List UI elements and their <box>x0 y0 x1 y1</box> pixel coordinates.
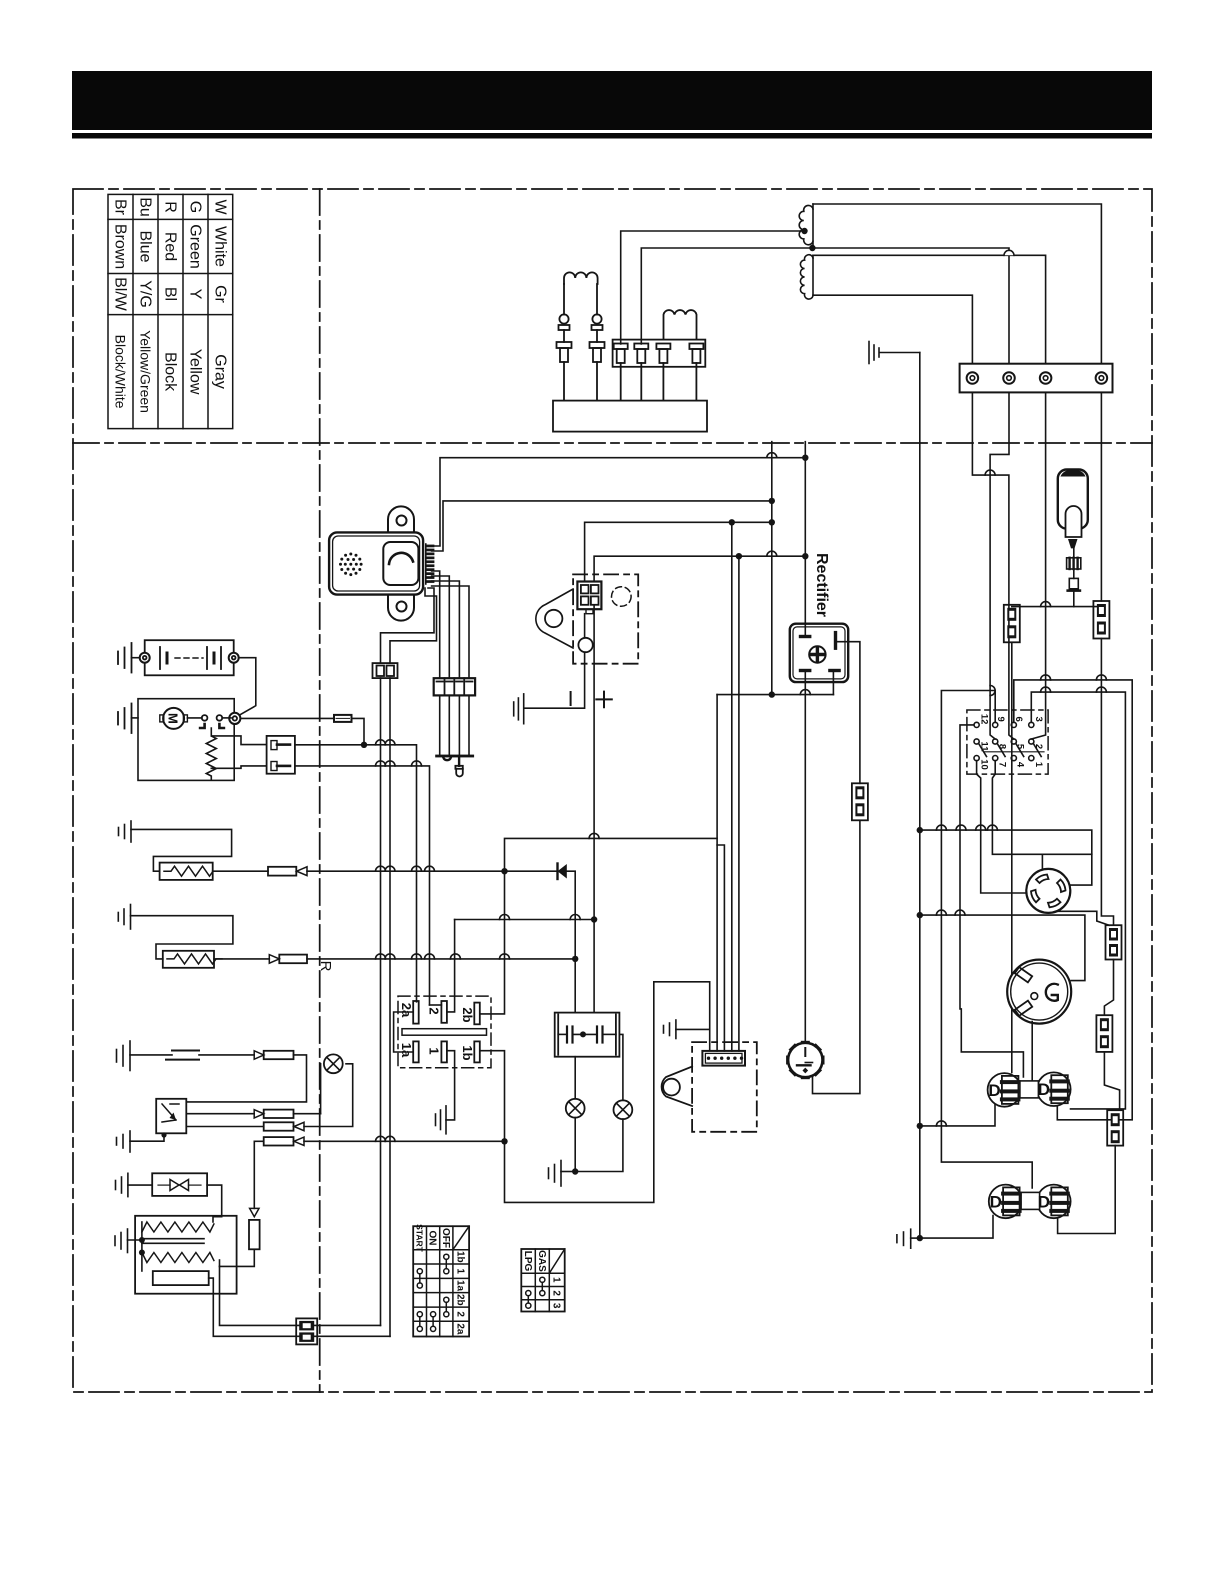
START 1-1a <box>417 1269 422 1274</box>
ground (DC socket) <box>523 694 525 724</box>
main winding W1 (4 loops) <box>812 204 814 248</box>
node bus 1126 <box>917 1123 923 1129</box>
wire to node 1b <box>304 1140 505 1142</box>
spark plug left <box>557 342 572 348</box>
ground (starter) <box>131 704 133 734</box>
svg-text:2: 2 <box>551 1290 562 1296</box>
spark plug cap left <box>559 314 568 323</box>
terminal strip <box>960 364 1113 393</box>
wire left drop to heater node <box>505 695 718 872</box>
plus label <box>596 692 612 708</box>
wire bus to twistlock right <box>920 830 1092 885</box>
svg-text:D: D <box>1038 1192 1050 1211</box>
svg-text:7: 7 <box>997 762 1008 767</box>
ground bus wire down page <box>919 353 921 1239</box>
svg-text:Yellow/Green: Yellow/Green <box>138 330 154 413</box>
svg-text:R: R <box>317 961 334 972</box>
wire rect right pin <box>837 642 860 784</box>
CDI box <box>692 1042 757 1132</box>
wire diode to cap lamp branch <box>567 871 575 1012</box>
meter window <box>383 542 418 585</box>
svg-text:Br: Br <box>112 199 129 216</box>
RV receptacle <box>1007 960 1071 1024</box>
plus wire down <box>593 605 595 920</box>
svg-text:Rectifier: Rectifier <box>813 553 830 617</box>
diode into resistor <box>253 1141 255 1208</box>
svg-text:11: 11 <box>979 741 990 752</box>
aux winding rect <box>153 1271 209 1285</box>
rectifier body <box>790 624 848 682</box>
center bar <box>402 1029 487 1036</box>
svg-text:Red: Red <box>162 232 179 261</box>
pin 1 plug <box>614 344 628 350</box>
wire C2 pin1 to switch 2a <box>295 744 364 746</box>
minus label <box>570 692 572 705</box>
LPG 2-3 <box>526 1291 531 1296</box>
ring terminal <box>229 713 240 724</box>
wire 2 left from solenoid drop <box>430 1004 442 1006</box>
wire hop W2-top over terminal2 line <box>1004 250 1014 255</box>
terminal 4 wire down <box>1100 392 1102 601</box>
wire R2 to connector <box>214 958 269 960</box>
hop solenoid wire over battery drop <box>412 761 422 766</box>
hops heater2 <box>376 954 386 959</box>
wire pin3 right <box>1031 692 1125 1109</box>
SCR symbol <box>162 1104 176 1122</box>
svg-text:Bl/W: Bl/W <box>112 277 129 312</box>
svg-text:3: 3 <box>1033 717 1044 722</box>
node heater1/2b <box>501 868 507 874</box>
bus connector C1 (2 pin) <box>373 663 398 1336</box>
svg-text:2a: 2a <box>399 1003 414 1018</box>
svg-text:Yellow: Yellow <box>187 349 204 395</box>
pin top-right <box>834 631 837 650</box>
boot body <box>1058 470 1088 529</box>
wire bus to duplex1 <box>920 1103 995 1126</box>
fuel sender <box>801 1041 810 1046</box>
wire W1 top to terminal 4 <box>813 204 1101 364</box>
wire rect bottom-left pin down to sender <box>804 672 806 1043</box>
contact 1a <box>413 1041 419 1062</box>
twist lock receptacle <box>1026 869 1070 913</box>
module 2 wires to bus connector <box>381 588 435 663</box>
wire W2 top to terminal 3 <box>813 255 1046 363</box>
svg-text:Brown: Brown <box>112 224 129 269</box>
wire terminal2 to pin8 <box>990 392 1009 739</box>
capacitor C1 plates <box>566 1027 568 1043</box>
node on rectifier feed <box>802 455 808 461</box>
wire terminal3 down <box>1031 392 1045 739</box>
left bracket 2a-1a <box>394 1012 414 1052</box>
GAS 1-2 <box>540 1277 545 1282</box>
ground (heater 1) <box>130 821 132 842</box>
wire module to rectifier bus (top) <box>432 458 806 546</box>
connector A <box>1096 1015 1112 1052</box>
wire tap B to terminal 2 <box>812 248 1009 364</box>
outer dashed border <box>73 189 1152 1392</box>
svg-text:2: 2 <box>1033 744 1044 749</box>
oil alert unit <box>156 1099 186 1134</box>
wire rect top pin up <box>804 458 806 635</box>
solenoid coil <box>206 728 216 780</box>
engine block <box>553 401 707 432</box>
secondary/aux out to bus pair <box>220 1266 381 1325</box>
pin wires up to buses <box>585 522 732 581</box>
pin labels <box>979 714 1045 770</box>
wire W2 bottom to terminal 1 <box>813 295 972 364</box>
vertical x771.8 <box>771 442 773 695</box>
dashed box <box>573 574 638 663</box>
wire pin6 right <box>1014 680 1132 1120</box>
fuse F1 <box>334 715 352 722</box>
wire heater2 ground zigzag <box>131 916 233 959</box>
svg-text:Y: Y <box>187 289 204 300</box>
wire to alert unit <box>186 1055 306 1102</box>
ground (coil) <box>127 1229 129 1253</box>
hops battery wires over bus pair <box>376 740 386 745</box>
wire T1 right leg <box>596 284 598 315</box>
module mounting ear bottom <box>388 595 414 621</box>
wire tap A to connector pin1 <box>621 231 805 344</box>
spark plug right <box>596 330 598 342</box>
wire solenoid top to connector C2 <box>211 736 266 745</box>
node plus-line into block <box>593 920 595 1013</box>
rect bottom bus <box>717 694 833 696</box>
svg-text:1a: 1a <box>399 1043 414 1058</box>
pin bottom-right <box>828 669 841 672</box>
sensor bulb <box>458 757 460 765</box>
duplex outlet 1 <box>988 1073 1022 1107</box>
battery + cable <box>239 658 256 716</box>
wiper bar <box>984 751 1044 753</box>
ground (oil switch) <box>129 1041 131 1071</box>
ON 2-2a <box>431 1312 436 1317</box>
ground (output) <box>910 1229 912 1248</box>
svg-text:G: G <box>187 201 204 213</box>
horizontal section divider <box>73 442 1152 444</box>
bullet connector pair 2 <box>269 955 279 964</box>
spark plug cap right <box>592 314 601 323</box>
svg-text:D: D <box>990 1192 1002 1211</box>
svg-text:GAS: GAS <box>536 1250 547 1272</box>
svg-text:2b: 2b <box>455 1294 466 1306</box>
ground (battery) <box>131 643 133 673</box>
wire 1 right to ground <box>446 1051 455 1120</box>
node bus 1238 <box>917 1235 923 1241</box>
relay contacts <box>202 715 208 721</box>
capacitor C2 plates <box>596 1027 598 1043</box>
svg-text:4: 4 <box>1015 762 1026 768</box>
svg-text:W: W <box>212 199 229 215</box>
svg-text:9: 9 <box>995 717 1006 722</box>
header underline <box>72 133 1152 139</box>
wire twistlock to duplex1 <box>1031 1022 1033 1081</box>
svg-text:Bl: Bl <box>162 287 179 301</box>
wire connector X down chain <box>1101 639 1113 926</box>
ground (engine) <box>868 342 870 364</box>
svg-text:Green: Green <box>187 224 204 268</box>
svg-text:1b: 1b <box>455 1251 466 1263</box>
speaker dot cluster <box>339 553 363 577</box>
node bus 915 <box>917 912 923 918</box>
wire to spark plug left <box>563 330 565 342</box>
dashed circle <box>612 587 632 607</box>
svg-text:D: D <box>988 1081 1000 1100</box>
terminal 1 <box>967 372 979 384</box>
secondary winding <box>142 1253 214 1263</box>
hops heater1 over bus pair and switch drops <box>376 866 386 871</box>
module mounting ear top <box>388 506 414 532</box>
svg-text:START: START <box>414 1224 424 1253</box>
core lines <box>142 1238 204 1240</box>
wire block bottom to lamp2 <box>574 1057 576 1099</box>
pin top-left <box>799 635 812 638</box>
svg-text:1: 1 <box>455 1268 466 1274</box>
svg-text:1b: 1b <box>460 1045 475 1060</box>
CDI mount flange <box>662 1067 693 1107</box>
contact 2a <box>413 1001 419 1024</box>
pins row1 <box>974 722 979 727</box>
svg-text:2: 2 <box>455 1311 466 1317</box>
meter arc <box>389 553 413 564</box>
node line2 / x771.8 <box>769 498 775 504</box>
svg-text:Block/White: Block/White <box>113 335 129 409</box>
wire Y0 to connector A <box>1104 960 1113 1016</box>
inner link wire <box>558 1033 567 1035</box>
contact 1 <box>441 1041 447 1062</box>
connector C2 (2 pin) <box>267 736 295 774</box>
CDI connector <box>702 1051 745 1066</box>
svg-text:1: 1 <box>551 1277 562 1283</box>
terminal 2 <box>1003 372 1015 384</box>
lamp grounds <box>574 1118 576 1172</box>
wire heater1 ground zigzag <box>131 829 232 871</box>
node tap B <box>809 245 815 251</box>
trigger coil T2 (right, 3 loops) <box>664 310 697 340</box>
wire pin7 down to twistlock top <box>992 761 1091 855</box>
svg-text:1: 1 <box>427 1047 442 1054</box>
wire resistor to secondary <box>220 1249 255 1266</box>
wire pin10 down to twistlock <box>977 761 1027 893</box>
wire connector W down to duplex 1 <box>1011 642 1013 1072</box>
oil sensor bar <box>435 755 474 758</box>
svg-text:OFF: OFF <box>440 1228 451 1248</box>
wire fuse to node <box>352 718 365 744</box>
resistor vertical <box>249 1220 260 1249</box>
small circle on minus wire <box>578 638 592 652</box>
svg-text:5: 5 <box>1015 744 1026 750</box>
wire twistlock bottom to connector chain <box>1052 909 1110 926</box>
wire hop over x771.8 <box>767 453 777 458</box>
module body U1 <box>329 532 423 594</box>
pin 4 plug <box>689 344 703 350</box>
4-pin magneto connector <box>613 340 706 367</box>
ground (CDI) <box>675 1020 677 1039</box>
wire connector V down to sender <box>813 820 860 1093</box>
svg-text:Y/G: Y/G <box>137 280 154 308</box>
svg-text:LPG: LPG <box>522 1251 533 1272</box>
svg-text:ON: ON <box>427 1231 438 1246</box>
starter box <box>138 699 234 781</box>
wire heater2 to node <box>307 958 575 960</box>
battery plates <box>159 647 161 669</box>
svg-text:1a: 1a <box>455 1280 466 1292</box>
wire bus to rv receptacle <box>920 915 1085 981</box>
terminal 4 <box>1096 372 1108 384</box>
wire R1 to connector <box>213 870 268 872</box>
charge connector V (2 plug) <box>852 783 868 820</box>
wire C2 pin2 to switch 2 <box>295 766 430 1005</box>
node heater2 <box>572 956 578 962</box>
contact 2b <box>474 1003 480 1025</box>
oil level switch <box>172 1050 199 1052</box>
svg-text:8: 8 <box>997 744 1008 749</box>
wire 2-riser top to +wire node <box>455 919 594 921</box>
coil box <box>135 1216 237 1294</box>
wire heater1 to diode <box>307 870 557 872</box>
svg-text:D: D <box>1038 1080 1050 1099</box>
wire 2 right riser <box>447 920 455 1012</box>
vertical section divider <box>319 189 321 1392</box>
heater element R1 <box>160 863 213 880</box>
4-pin connector <box>577 582 601 610</box>
main bus pair down page <box>380 678 382 1325</box>
pilot lamp L2 <box>566 1099 585 1118</box>
terminal 3 <box>1040 372 1052 384</box>
wire terminal to fuse <box>222 717 231 719</box>
bullet connector 3 <box>254 1051 264 1059</box>
contact 2 <box>441 1001 447 1023</box>
svg-text:10: 10 <box>979 759 990 770</box>
module pin comb <box>426 544 435 584</box>
svg-text:12: 12 <box>979 714 990 725</box>
wire diode box to coil primary <box>207 1185 222 1222</box>
node battery feed <box>361 742 367 748</box>
minus wire to ground <box>584 614 586 638</box>
svg-text:2: 2 <box>427 1007 442 1014</box>
svg-text:Bu: Bu <box>137 197 154 217</box>
wire tap B to connector pin2 <box>641 248 812 344</box>
svg-text:Block: Block <box>162 352 179 392</box>
cone <box>1068 539 1078 548</box>
center screw <box>809 646 825 662</box>
duplex outlet 2 <box>989 1185 1023 1219</box>
START 2-2a <box>417 1312 422 1317</box>
feed from regulator below <box>254 1140 263 1142</box>
pilot lamp L1 <box>324 1054 343 1073</box>
ground (switch) <box>445 1106 447 1134</box>
svg-text:1: 1 <box>1033 762 1044 768</box>
wire block right to lamp3 <box>619 1034 623 1100</box>
OFF 1b-1 <box>444 1254 449 1259</box>
node 1b feed <box>501 1138 507 1144</box>
lower plug <box>1069 578 1078 588</box>
wire color legend table <box>108 194 233 428</box>
svg-text:3: 3 <box>551 1303 562 1309</box>
wiper arms <box>979 743 987 756</box>
battery BAT <box>145 640 234 675</box>
connector B <box>1107 1110 1123 1145</box>
svg-text:R: R <box>162 201 179 213</box>
diode D1 <box>556 864 558 880</box>
wire 1b right down to node <box>480 1051 505 1142</box>
inner stem <box>1066 506 1082 537</box>
wire bus to duplex2 <box>920 1216 993 1239</box>
pilot lamp L3 <box>614 1100 633 1119</box>
main winding W2 (5 loops) <box>812 255 814 295</box>
node bus 830 <box>917 827 923 833</box>
ground (lamps) <box>560 1161 562 1187</box>
svg-text:Blue: Blue <box>137 230 154 262</box>
wire connector A to duplex1 right <box>1104 1052 1119 1110</box>
diode pair box <box>152 1173 207 1196</box>
horizontal link line <box>1012 606 1101 608</box>
bullet connector pair 1 <box>268 867 296 876</box>
svg-text:6: 6 <box>1013 717 1024 722</box>
connector W (left 2 plug) <box>1004 605 1020 643</box>
wire pin12 left and down <box>960 725 1023 1077</box>
pin 2 plug <box>634 344 648 350</box>
svg-text:M: M <box>166 713 181 724</box>
wires to sensor bar <box>439 695 441 754</box>
wire 2b right riser to heater1 node <box>480 871 505 1014</box>
starter motor M1 <box>163 708 184 729</box>
ground (diode box) <box>127 1173 129 1196</box>
module 4 sensor wires down <box>432 571 440 678</box>
alert output 1 to lamp <box>186 1113 254 1115</box>
svg-text:Gray: Gray <box>212 354 229 389</box>
ground (alert unit) <box>129 1131 131 1152</box>
CDI feed wires <box>716 838 718 1051</box>
heater element R2 <box>163 951 214 968</box>
svg-text:White: White <box>212 226 229 267</box>
mount flange <box>536 589 573 648</box>
U wire from node 1b to CDI <box>505 982 710 1203</box>
ground (heater 2) <box>130 905 132 930</box>
connector Y0 <box>1106 925 1122 959</box>
primary winding <box>142 1222 214 1232</box>
sensor dome <box>443 757 451 760</box>
OFF 2b-2 <box>444 1297 449 1302</box>
header black bar <box>72 71 1152 130</box>
wire connector B to duplex2 <box>1058 1146 1116 1234</box>
svg-text:2b: 2b <box>460 1007 475 1022</box>
ignition coil T1 (left, 3 loops) <box>564 272 598 284</box>
wire T1 left leg <box>563 284 565 315</box>
wire pin9 up over and down <box>941 691 1032 1189</box>
bus bottom connector (2 plug) <box>296 1318 317 1344</box>
pins row3 <box>974 756 979 761</box>
block outline <box>398 996 491 1068</box>
wire module line 2 <box>432 501 772 551</box>
pin bottom-left <box>799 669 812 672</box>
pin 3 plug <box>656 344 670 350</box>
svg-text:2a: 2a <box>455 1323 466 1335</box>
alert output 2 connectors <box>186 1126 263 1128</box>
svg-text:Gr: Gr <box>212 285 229 303</box>
sensor connector C4 (4 gang) <box>434 678 475 776</box>
wire terminal1 to pin5 <box>972 392 1013 739</box>
node tap A <box>801 228 807 234</box>
connector X (right 2 plug) <box>1093 601 1109 639</box>
wire solenoid bottom to connector C2 <box>211 766 266 768</box>
rib cylinder <box>1067 558 1081 569</box>
pins row2 <box>974 739 979 744</box>
contact 1b <box>474 1041 480 1062</box>
block outline <box>967 710 1048 774</box>
capacitor block body <box>555 1013 620 1057</box>
